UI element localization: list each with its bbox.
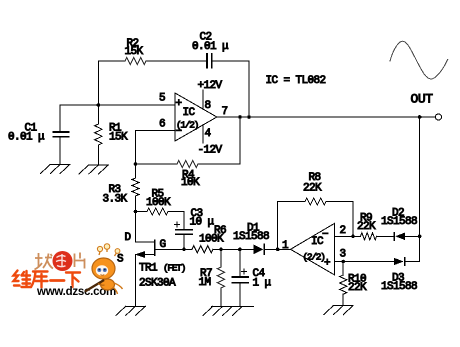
- wire: left vertical of R2/C2 feedback loop: [97, 61, 99, 105]
- wire: C3 bottom lead: [183, 234, 185, 249]
- resistor R5: [147, 208, 168, 215]
- svg-text:22K: 22K: [348, 282, 367, 294]
- node junction dot gate/C3/R6: [182, 248, 186, 252]
- diode D3 1S1588: [394, 258, 405, 266]
- ground under C1: [41, 165, 71, 174]
- svg-text:-12V: -12V: [198, 145, 223, 157]
- wire: R4 feedback line left segment: [136, 163, 178, 165]
- wire: pin 3 line: [335, 261, 394, 263]
- wire: R8 loop left vertical: [278, 202, 305, 250]
- ground under R1: [79, 165, 109, 174]
- svg-text:+: +: [324, 258, 330, 270]
- junction dot pin2/R8: [351, 235, 355, 239]
- svg-text:1: 1: [282, 240, 289, 252]
- text weiku yixia: [14, 271, 81, 288]
- svg-text:OUT: OUT: [411, 92, 434, 107]
- capacitor C2: [207, 54, 212, 68]
- wire: D3 to OUT vertical: [405, 261, 419, 263]
- op-amp U2 (IC 2/2): [291, 223, 335, 275]
- wei: [14, 271, 32, 288]
- op-amp U1 (IC 1/2): [175, 93, 217, 141]
- source lead: [136, 254, 155, 256]
- wire: pin 2 line: [335, 235, 361, 237]
- resistor R6: [192, 246, 213, 253]
- wire: R6 to D1 with taps: [213, 248, 254, 250]
- junction dot output/R4: [238, 115, 242, 119]
- node junction dot R3/R5/drain: [134, 210, 138, 214]
- wire: R9 to D2: [377, 235, 394, 237]
- diode D2 1S1588: [394, 233, 405, 241]
- svg-text:1 μ: 1 μ: [253, 278, 272, 290]
- svg-text:0.01 μ: 0.01 μ: [192, 41, 229, 53]
- svg-text:IC = TL082: IC = TL082: [266, 75, 326, 87]
- svg-text:7: 7: [222, 106, 228, 118]
- svg-text:(1/2): (1/2): [176, 120, 199, 131]
- svg-text:15K: 15K: [109, 132, 128, 144]
- ground under R7 and C4 (wide): [203, 306, 254, 315]
- svg-text:15K: 15K: [125, 46, 144, 58]
- resistor R4: [177, 160, 198, 167]
- wire: R8 right vertical down to pin2: [326, 202, 353, 237]
- transistor Q1 TR1 (FET 2SK30A): [135, 212, 184, 307]
- gate lead: [155, 248, 184, 250]
- svg-text:1S1588: 1S1588: [233, 231, 269, 243]
- svg-text:10 μ: 10 μ: [190, 217, 215, 229]
- char pian (chip): [75, 253, 85, 269]
- diode D1 1S1588: [254, 244, 265, 254]
- svg-text:2: 2: [340, 225, 346, 237]
- svg-text:IC: IC: [183, 107, 196, 119]
- drain lead: [136, 212, 155, 242]
- svg-text:6: 6: [159, 119, 165, 131]
- wire: vertical from output down to D2/D3: [419, 117, 421, 262]
- power +12V stub (pin 8): [202, 90, 204, 110]
- wire: D1 to op-amp2 input: [265, 248, 291, 250]
- wire: main input line y=105: [60, 104, 175, 106]
- ground under TR1 source: [116, 306, 146, 315]
- svg-text:100K: 100K: [146, 197, 171, 209]
- wire: C2 to right corner and down to output line: [213, 61, 250, 117]
- svg-text:S: S: [117, 254, 124, 266]
- yi: [51, 279, 65, 282]
- svg-text:0.01 μ: 0.01 μ: [8, 132, 45, 144]
- svg-text:D: D: [125, 232, 132, 244]
- svg-text:1S1588: 1S1588: [381, 216, 417, 228]
- node A junction dot at R1 top: [97, 103, 101, 107]
- source vertical to ground: [135, 255, 137, 307]
- wire: R4 right segment up to output: [198, 117, 240, 164]
- wire: R5 lead left: [136, 211, 148, 213]
- svg-text:100K: 100K: [199, 234, 224, 246]
- svg-text:10K: 10K: [181, 177, 200, 189]
- mascot: [85, 244, 123, 294]
- wire: R2 to C2: [146, 60, 207, 62]
- power -12V stub (pin 4): [202, 125, 204, 144]
- svg-text:3.3K: 3.3K: [103, 194, 128, 206]
- channel bar: [154, 240, 156, 255]
- sine wave icon: [390, 41, 448, 79]
- svg-text:1M: 1M: [199, 277, 211, 289]
- junction dot R7 tap: [219, 248, 223, 252]
- plus mark C3: [175, 222, 180, 227]
- red circle seal: [53, 251, 73, 271]
- wire: D2 to OUT vertical: [405, 235, 420, 237]
- wire: top loop left segment to R2: [98, 60, 125, 62]
- capacitor C4 (polarized): [233, 249, 249, 306]
- resistor R2: [125, 57, 146, 64]
- junction dot output/down line: [418, 115, 422, 119]
- svg-text:4: 4: [205, 128, 212, 140]
- svg-text:+: +: [176, 98, 182, 110]
- ku: [31, 272, 48, 288]
- svg-text:8: 8: [205, 100, 211, 112]
- svg-text:2SK30A: 2SK30A: [139, 278, 176, 290]
- output terminal circle: [435, 114, 441, 120]
- source arrow: [135, 251, 145, 258]
- char zhao (find): [35, 253, 54, 270]
- ground under R10: [324, 306, 354, 315]
- resistor R8: [305, 198, 326, 205]
- node junction dot at R3/R4: [134, 162, 138, 166]
- svg-text:+12V: +12V: [198, 80, 223, 92]
- xia: [66, 273, 80, 288]
- resistor R9: [361, 233, 377, 240]
- svg-text:G: G: [160, 239, 166, 251]
- svg-text:1S1588: 1S1588: [381, 281, 417, 293]
- watermark logo dzsc: [14, 244, 123, 298]
- svg-text:22K: 22K: [303, 183, 322, 195]
- svg-text:(2/2): (2/2): [303, 252, 326, 263]
- resistor R10: [340, 262, 347, 306]
- junction dot C4 tap: [238, 248, 242, 252]
- wire: pin 6 line to left vertical: [136, 131, 176, 165]
- junction dot pin3/R10: [341, 260, 345, 264]
- junction dot R8 tap: [276, 248, 280, 252]
- svg-text:TR1 (FET): TR1 (FET): [139, 263, 186, 275]
- capacitor C1: [54, 105, 69, 165]
- wire: gate node to R6: [184, 248, 192, 250]
- svg-text:5: 5: [159, 93, 165, 105]
- resistor R7: [217, 249, 224, 306]
- svg-text:22K: 22K: [357, 221, 376, 233]
- wire: output line from pin7 to terminal: [217, 116, 435, 118]
- svg-text:−: −: [322, 229, 328, 241]
- resistor R3: [132, 164, 139, 212]
- resistor R1: [95, 105, 102, 165]
- junction dot output/C2: [247, 115, 251, 119]
- plus mark C4: [241, 269, 246, 274]
- junction dot D2/OUT line: [418, 235, 422, 239]
- capacitor C3 (polarized): [176, 230, 192, 235]
- wire: R5 right to C3 top: [168, 212, 184, 230]
- svg-text:3: 3: [340, 249, 346, 261]
